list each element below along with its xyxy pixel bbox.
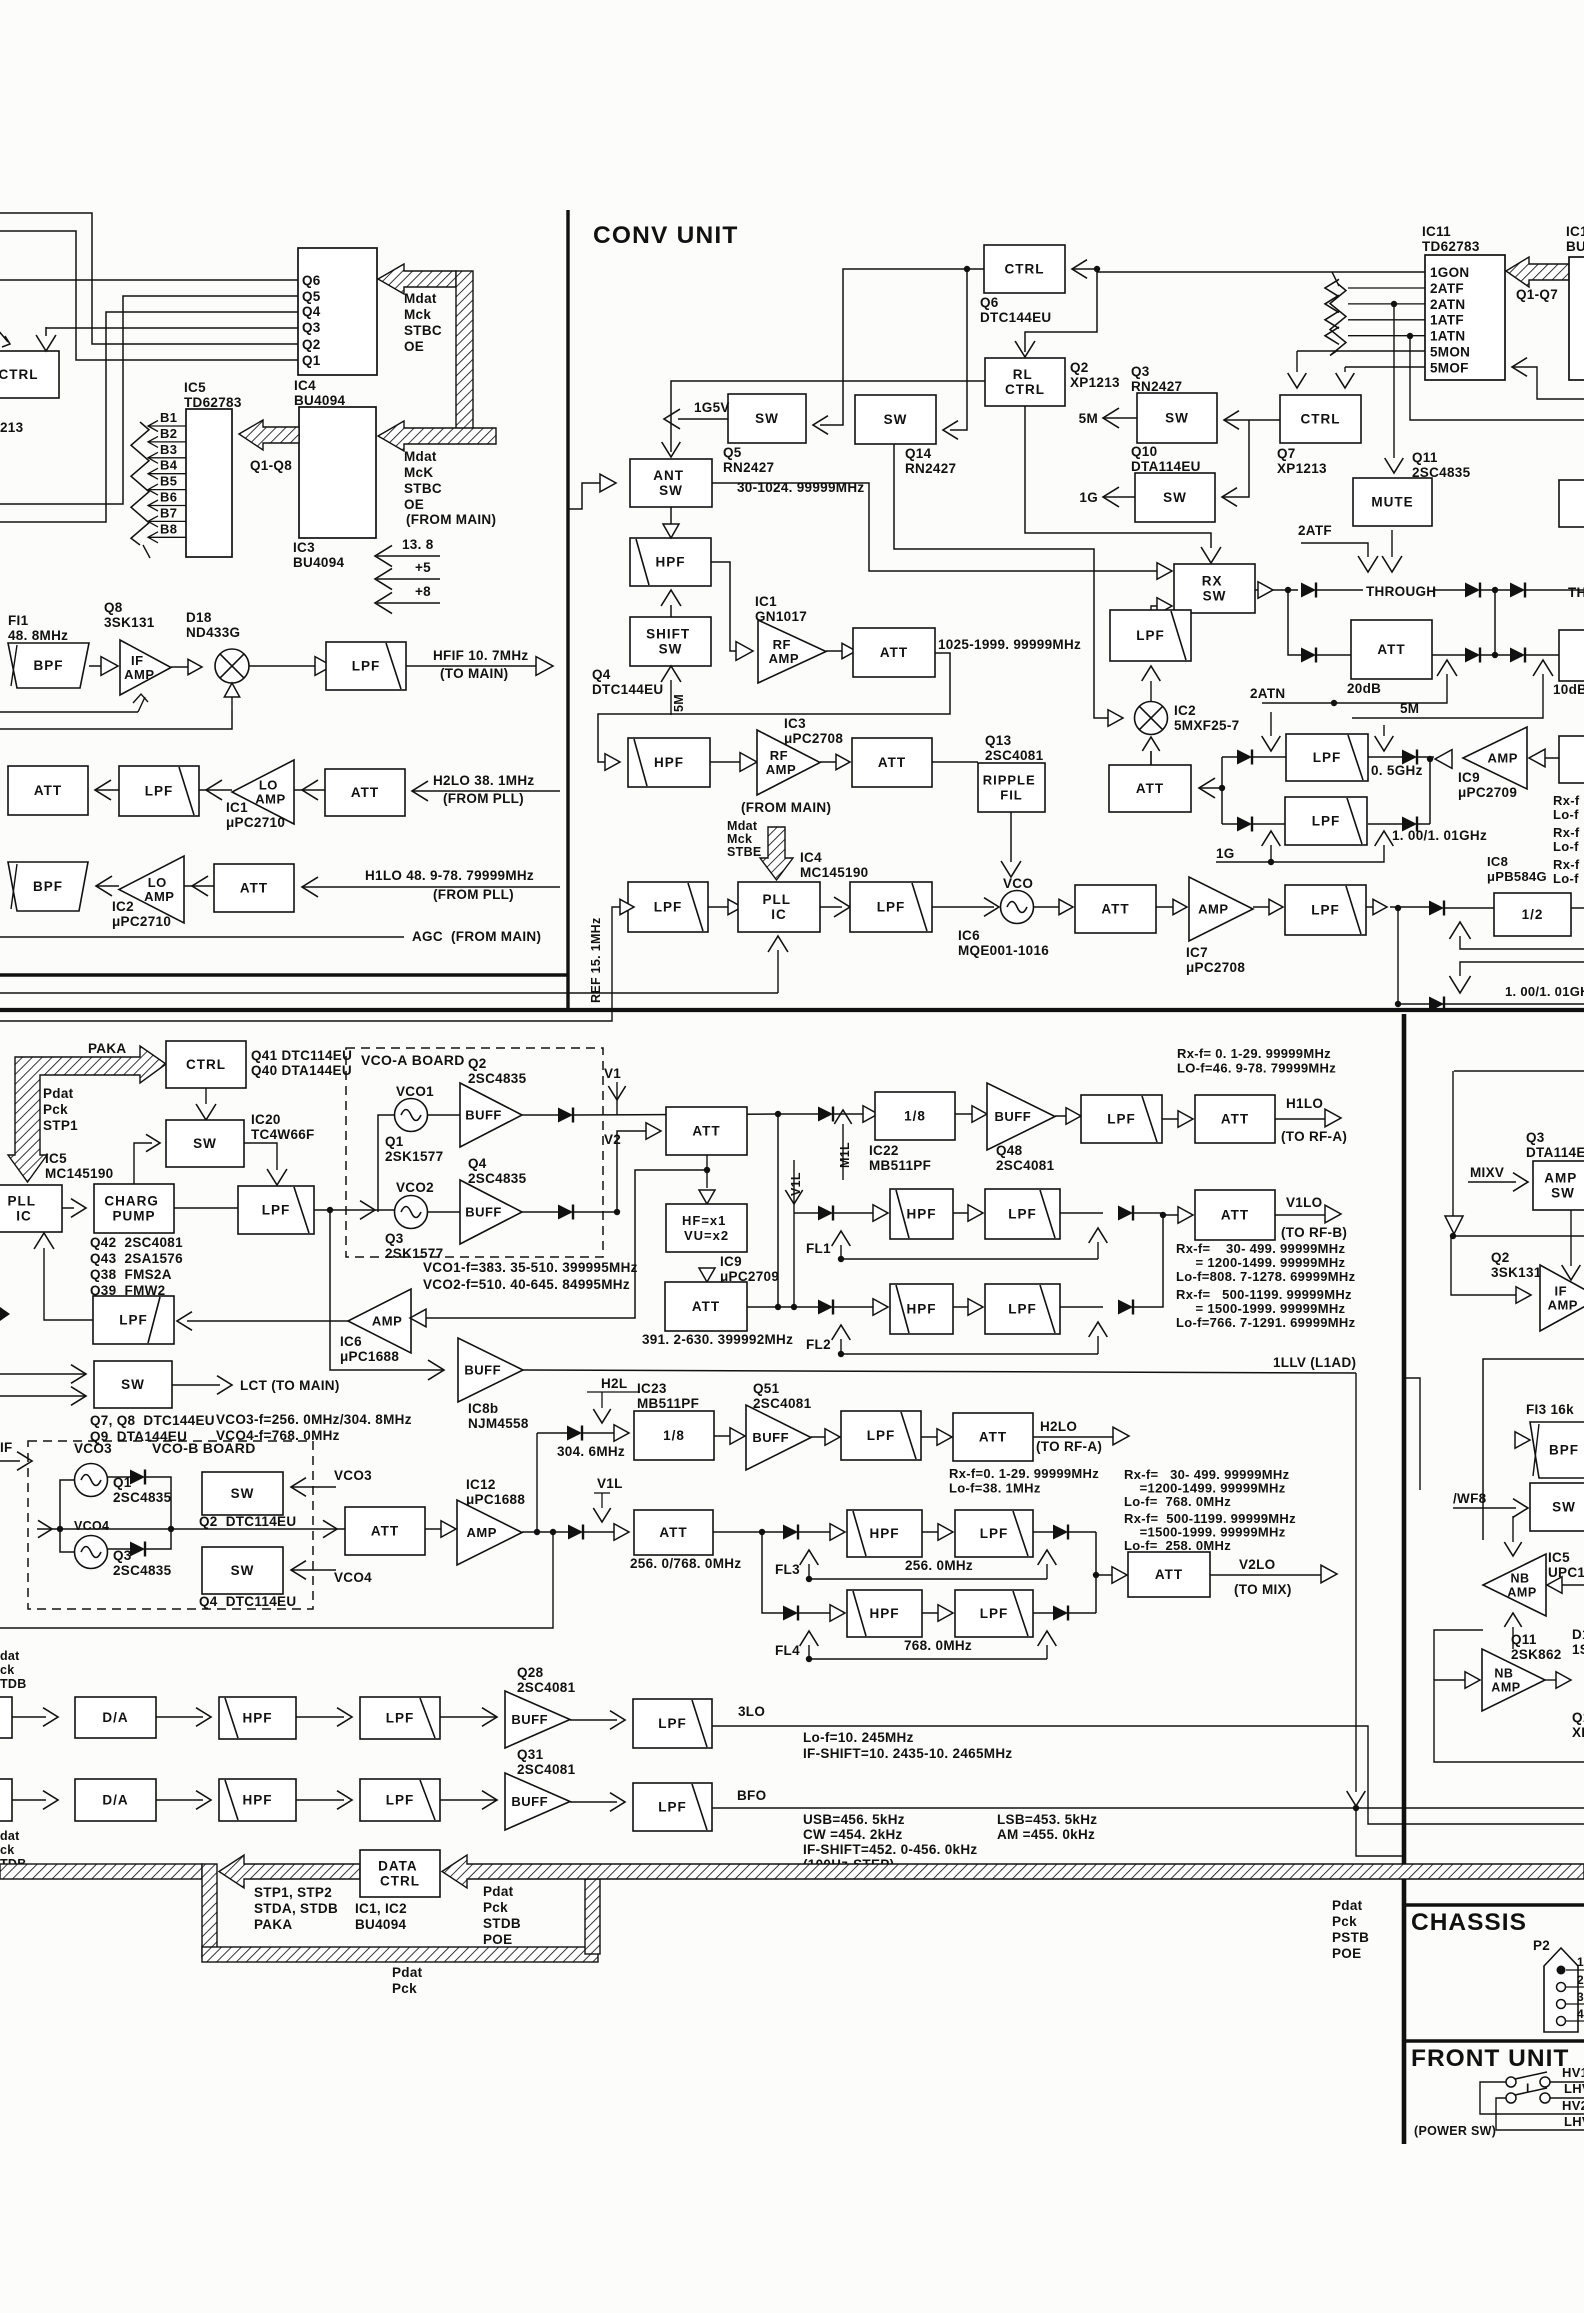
bus hatched arrow into DATA CTRL bbox=[442, 1855, 1584, 1888]
svg-text:V1L: V1L bbox=[597, 1476, 623, 1491]
filter LPF after amp bbox=[1253, 906, 1269, 908]
svg-text:IC1, IC2 BU4094: IC1, IC2 BU4094 bbox=[355, 1901, 411, 1932]
svg-text:SW: SW bbox=[1552, 1500, 1576, 1515]
attenuator ATT gig bbox=[1109, 765, 1191, 812]
svg-text:(FROM PLL): (FROM PLL) bbox=[433, 887, 514, 902]
svg-text:ATT: ATT bbox=[659, 1525, 687, 1540]
svg-text:CHASSIS: CHASSIS bbox=[1411, 1909, 1527, 1936]
wire IF AMP feedback bbox=[0, 711, 138, 713]
diode att out 1 bbox=[1432, 654, 1465, 656]
wire 1GON line bbox=[1097, 271, 1425, 273]
svg-text:B8: B8 bbox=[160, 521, 177, 536]
wire mult down bbox=[699, 1268, 715, 1282]
svg-text:VCO4: VCO4 bbox=[74, 1519, 109, 1533]
bus hatched main band left bbox=[0, 1864, 202, 1879]
wire: CONV unit left border bbox=[566, 210, 569, 1010]
svg-text:1. 00/1. 01GH: 1. 00/1. 01GH bbox=[1505, 984, 1584, 999]
wire ANT SW input bbox=[568, 483, 600, 509]
svg-text:Q1 XP: Q1 XP bbox=[1572, 1710, 1584, 1740]
wire power sw routing 2 bbox=[1496, 2098, 1584, 2130]
wire sw right to lpf bbox=[244, 1143, 277, 1170]
diode through 3 bbox=[1510, 583, 1525, 598]
svg-text:AMP: AMP bbox=[1487, 751, 1517, 766]
amp IC6 uPC1688 bbox=[348, 1289, 411, 1353]
wire 1llv line bbox=[523, 1370, 1356, 1373]
filter HPF da1 bbox=[156, 1716, 203, 1718]
svg-text:(POWER SW): (POWER SW) bbox=[1414, 2124, 1496, 2138]
wire IF AMP agc arrow bbox=[138, 697, 145, 712]
wire 13.8 supply arrow bbox=[375, 545, 392, 566]
svg-text:DATA CTRL: DATA CTRL bbox=[378, 1859, 422, 1889]
wire 304 feed vertical bbox=[536, 1433, 538, 1532]
svg-text:V2: V2 bbox=[604, 1132, 621, 1147]
svg-text:H2L: H2L bbox=[601, 1376, 627, 1391]
diode vco3 out bbox=[108, 1476, 130, 1478]
svg-text:Rx-f= 0. 1-29. 99999MHz LO-f=4: Rx-f= 0. 1-29. 99999MHz LO-f=46. 9-78. 7… bbox=[1177, 1046, 1336, 1076]
switch SW right edge top bbox=[1559, 480, 1584, 527]
svg-text:LHV: LHV bbox=[1564, 2081, 1584, 2096]
svg-text:BUFF: BUFF bbox=[465, 1205, 502, 1220]
svg-text:5M: 5M bbox=[1079, 411, 1098, 426]
diode hpf 256 in bbox=[783, 1525, 798, 1540]
svg-text:B4: B4 bbox=[160, 458, 178, 473]
svg-text:AMP: AMP bbox=[1198, 902, 1228, 917]
switch SW IC20 TC4W66F bbox=[166, 1120, 244, 1167]
svg-text:LPF: LPF bbox=[386, 1711, 415, 1726]
wire v2lo join bbox=[1095, 1532, 1097, 1613]
svg-text:FRONT UNIT: FRONT UNIT bbox=[1411, 2045, 1569, 2072]
svg-text:D/A: D/A bbox=[102, 1710, 128, 1725]
attenuator ATT 391 bbox=[665, 1282, 747, 1331]
attenuator ATT second bbox=[820, 761, 836, 763]
svg-text:SW: SW bbox=[755, 411, 779, 426]
svg-text:LPF: LPF bbox=[386, 1793, 415, 1808]
svg-text:H2LO 38. 1MHz: H2LO 38. 1MHz bbox=[433, 773, 534, 788]
svg-text:Q4 DTC114EU: Q4 DTC114EU bbox=[199, 1594, 296, 1609]
wire SW feeds from CTRL Q7 bbox=[1224, 411, 1239, 430]
svg-text:4: 4 bbox=[1577, 2007, 1584, 2021]
svg-text:SW: SW bbox=[231, 1486, 255, 1501]
svg-text:5MOF: 5MOF bbox=[1430, 360, 1469, 375]
svg-text:ATT: ATT bbox=[1136, 781, 1164, 796]
svg-text:HPF: HPF bbox=[907, 1207, 937, 1222]
diode through 2 bbox=[1465, 583, 1480, 598]
connector arrow left edge bbox=[0, 1307, 10, 1321]
svg-text:BFO: BFO bbox=[737, 1788, 766, 1803]
svg-text:B7: B7 bbox=[160, 505, 177, 520]
filter LPF da2 bbox=[296, 1799, 344, 1801]
mixer IC2 5MXF25-7 bbox=[1135, 702, 1168, 735]
svg-text:ATT: ATT bbox=[1101, 902, 1129, 917]
svg-text:VCO2: VCO2 bbox=[396, 1180, 434, 1195]
svg-text:LSB=453. 5kHz AM =455. 0kHz: LSB=453. 5kHz AM =455. 0kHz bbox=[997, 1812, 1101, 1842]
bus hatched arrow Mdat Mck STBC OE into IC4 bbox=[378, 264, 456, 294]
svg-text:FL3: FL3 bbox=[775, 1562, 800, 1577]
svg-text:(FROM MAIN): (FROM MAIN) bbox=[741, 800, 831, 815]
wire 5MOF line bbox=[1345, 366, 1425, 368]
svg-text:HV2: HV2 bbox=[1562, 2098, 1584, 2113]
attenuator ATT 1025 bbox=[826, 650, 842, 652]
svg-text:2ATF: 2ATF bbox=[1298, 523, 1332, 538]
wire BPF out bbox=[89, 665, 101, 667]
wire p2 pins bbox=[1566, 1969, 1584, 1971]
attenuator ATT 20dB bbox=[1351, 620, 1432, 679]
wire vco3 select bbox=[291, 1478, 306, 1497]
svg-text:BUFF: BUFF bbox=[752, 1430, 789, 1445]
svg-text:3LO: 3LO bbox=[738, 1704, 765, 1719]
attenuator ATT h2lo bbox=[921, 1436, 937, 1438]
svg-text:1/8: 1/8 bbox=[904, 1109, 926, 1124]
node DATA CTRL IC1 IC2 BU4094 bbox=[360, 1850, 440, 1897]
wire 2ATN to mute bbox=[1391, 301, 1397, 307]
filter LPF vco bbox=[820, 906, 842, 908]
svg-text:LPF: LPF bbox=[352, 659, 381, 674]
filter LPF h1lo out bbox=[1055, 1115, 1066, 1117]
bus hatched left riser bbox=[202, 1864, 217, 1958]
svg-text:1ATF: 1ATF bbox=[1430, 313, 1464, 328]
wire nb amp bottom arrow bbox=[1504, 1613, 1521, 1627]
attenuator ATT vco out bbox=[1034, 906, 1059, 908]
wire PLL feedback bbox=[777, 950, 779, 993]
svg-text:ATT: ATT bbox=[371, 1524, 399, 1539]
svg-text:CTRL: CTRL bbox=[1005, 262, 1045, 277]
switch POWER SW pole 2 bbox=[1506, 2093, 1516, 2103]
wire sw left to charge pump bbox=[134, 1143, 152, 1184]
svg-text:SW: SW bbox=[121, 1377, 145, 1392]
svg-text:304. 6MHz: 304. 6MHz bbox=[557, 1444, 625, 1459]
svg-text:LPF: LPF bbox=[1311, 903, 1340, 918]
diode lpf 1G out bbox=[1402, 817, 1417, 832]
svg-text:LPF: LPF bbox=[658, 1716, 687, 1731]
svg-text:Rx-f= 30- 499. 99999MHz: Rx-f= 30- 499. 99999MHz = 1200-1499. 999… bbox=[1176, 1241, 1356, 1284]
svg-text:Q1: Q1 bbox=[302, 353, 321, 368]
node CTRL control block (left, cut) bbox=[0, 351, 59, 398]
wire amp feed bbox=[1529, 749, 1545, 767]
svg-text:AGC (FROM MAIN): AGC (FROM MAIN) bbox=[412, 929, 541, 944]
svg-text:B3: B3 bbox=[160, 442, 177, 457]
buffer BUFF Q48 2SC4081 bbox=[955, 1113, 972, 1115]
wire CTRL right feed bbox=[1072, 260, 1087, 279]
svg-text:20dB: 20dB bbox=[1347, 681, 1381, 696]
wire down triangle junction bbox=[1445, 1216, 1463, 1234]
wire RL CTRL left to ANT SW bbox=[671, 381, 985, 443]
filter LPF pll return bbox=[187, 1320, 348, 1322]
svg-text:SW: SW bbox=[193, 1136, 217, 1151]
svg-text:B6: B6 bbox=[160, 490, 177, 505]
svg-text:VCO-B BOARD: VCO-B BOARD bbox=[152, 1440, 256, 1456]
svg-text:SW: SW bbox=[884, 412, 908, 427]
svg-text:LPF: LPF bbox=[1136, 628, 1165, 643]
svg-text:LPF: LPF bbox=[1107, 1112, 1136, 1127]
wire lower chain feed bbox=[598, 677, 950, 762]
wire 1llv into right unit bbox=[1406, 1378, 1420, 1490]
svg-text:B5: B5 bbox=[160, 474, 177, 489]
filter LPF 256 bbox=[922, 1531, 938, 1533]
wire power sw routing 1 bbox=[1480, 2082, 1584, 2114]
wire 1.00/1.01GHz return bbox=[1460, 962, 1584, 976]
svg-text:768. 0MHz: 768. 0MHz bbox=[904, 1638, 972, 1653]
wire mixer lo from att bbox=[1142, 737, 1159, 751]
amp IC2 uPC2710 LO AMP bbox=[96, 876, 112, 896]
filter LPF bfo bbox=[570, 1801, 617, 1803]
svg-text:10dB: 10dB bbox=[1553, 682, 1584, 697]
wire Q3 line bbox=[46, 327, 298, 329]
node source box right edge bbox=[1559, 736, 1584, 783]
svg-text:LPF: LPF bbox=[980, 1526, 1009, 1541]
svg-text:Q2: Q2 bbox=[302, 337, 321, 352]
svg-text:2: 2 bbox=[1577, 1973, 1584, 1987]
filter LPF 3lo bbox=[570, 1719, 617, 1721]
wire LHV1 line bbox=[1550, 2097, 1584, 2099]
node RL CTRL Q2 XP1213 bbox=[985, 358, 1065, 406]
svg-text:HPF: HPF bbox=[654, 755, 684, 770]
vco board B dashed box bbox=[28, 1441, 313, 1609]
svg-text:BPF: BPF bbox=[33, 879, 63, 894]
wire: main horizontal section divider bbox=[0, 1008, 1584, 1012]
svg-text:VCO: VCO bbox=[1003, 876, 1033, 891]
wire +5 supply arrow bbox=[375, 568, 392, 589]
svg-text:CONV UNIT: CONV UNIT bbox=[593, 222, 739, 249]
amp IC1 uPC2710 LO AMP bbox=[206, 780, 222, 800]
wire 5M out bbox=[1103, 408, 1119, 428]
svg-text:FL2: FL2 bbox=[806, 1337, 831, 1352]
svg-text:H1LO: H1LO bbox=[1286, 1096, 1323, 1111]
filter HPF v1lo b bbox=[890, 1284, 953, 1334]
svg-text:RF AMP: RF AMP bbox=[766, 748, 796, 777]
wire vco4 select bbox=[291, 1561, 306, 1580]
wire lpf return to pll ic bbox=[44, 1248, 93, 1320]
diode lpf 0.5G out bbox=[1402, 750, 1417, 765]
wire 2ATN arrow down lpf bbox=[1270, 712, 1272, 736]
wire mixer feedback bbox=[0, 710, 232, 729]
wire 1/2 feedback up arrow bbox=[1449, 922, 1470, 939]
svg-text:5M: 5M bbox=[672, 694, 686, 712]
wire att from lpf pair bbox=[1199, 778, 1215, 798]
svg-text:NB AMP: NB AMP bbox=[1491, 1667, 1520, 1695]
switch SW Q14 RN2427 bbox=[855, 395, 936, 444]
svg-text:(TO RF-A): (TO RF-A) bbox=[1036, 1439, 1102, 1454]
wire Q2 line bbox=[0, 213, 298, 344]
svg-text:IF: IF bbox=[0, 1440, 13, 1455]
svg-text:LPF: LPF bbox=[877, 900, 906, 915]
svg-text:1. 00/1. 01GHz: 1. 00/1. 01GHz bbox=[1392, 828, 1487, 843]
svg-text:LPF: LPF bbox=[119, 1313, 148, 1328]
svg-text:RX SW: RX SW bbox=[1202, 574, 1228, 604]
diode att in bbox=[1301, 648, 1316, 663]
diode 1/8 in bbox=[777, 1114, 779, 1307]
wire 5MOF feed from right bbox=[1512, 358, 1527, 377]
bus hatched bottom band bbox=[202, 1947, 598, 1962]
diode lpf 0.5G in bbox=[1222, 756, 1237, 758]
svg-text:FI3 16k: FI3 16k bbox=[1526, 1402, 1574, 1417]
svg-text:LCT (TO MAIN): LCT (TO MAIN) bbox=[240, 1378, 340, 1393]
attenuator ATT vco-b bbox=[323, 1520, 337, 1537]
diode att 256 in bbox=[568, 1525, 583, 1540]
IC IC5 TD62783 driver bbox=[186, 409, 232, 557]
wire join to ATT bbox=[617, 1131, 646, 1212]
wire 1llv vertical down bbox=[1355, 1373, 1357, 1792]
svg-text:FL1: FL1 bbox=[806, 1241, 831, 1256]
svg-text:HF=x1 VU=x2: HF=x1 VU=x2 bbox=[682, 1213, 731, 1243]
svg-text:BPF: BPF bbox=[1549, 1443, 1579, 1458]
svg-text:VCO1: VCO1 bbox=[396, 1084, 434, 1099]
svg-text:Q5: Q5 bbox=[302, 289, 321, 304]
svg-text:H1LO 48. 9-78. 79999MHz: H1LO 48. 9-78. 79999MHz bbox=[365, 868, 534, 883]
svg-text:1G: 1G bbox=[1079, 490, 1098, 505]
wire through-att link bbox=[1494, 590, 1496, 655]
svg-text:1G5V: 1G5V bbox=[694, 400, 730, 415]
divider 1/8 IC22 MB511PF bbox=[875, 1092, 955, 1140]
wire +8 supply arrow bbox=[375, 592, 392, 613]
filter LPF da1 bbox=[296, 1716, 344, 1718]
svg-text:ATT: ATT bbox=[240, 881, 268, 896]
svg-text:V2LO: V2LO bbox=[1239, 1557, 1275, 1572]
diode hpf1 in bbox=[794, 1212, 818, 1214]
svg-text:HPF: HPF bbox=[907, 1302, 937, 1317]
wire Q5 line bbox=[0, 296, 298, 504]
attenuator ATT v2lo bbox=[1096, 1574, 1112, 1576]
bus hatched arrow Q1-Q7 bbox=[1506, 257, 1569, 287]
IC IC4 BU4094 shift register bbox=[298, 248, 377, 375]
wire mixer in bbox=[1108, 710, 1123, 727]
svg-text:ATT: ATT bbox=[880, 645, 908, 660]
svg-text:LHV: LHV bbox=[1564, 2114, 1584, 2129]
svg-text:ATT: ATT bbox=[1155, 1567, 1183, 1582]
IC PLL IC conv bbox=[708, 906, 728, 908]
filter LPF v1lo b bbox=[953, 1306, 968, 1308]
attenuator ATT h2lo out bbox=[8, 766, 88, 815]
svg-text:13. 8: 13. 8 bbox=[402, 537, 434, 552]
filter LPF conv low bbox=[1110, 610, 1191, 661]
filter LPF IF out bbox=[249, 665, 315, 667]
wire HV1 line bbox=[1550, 2081, 1584, 2083]
attenuator ATT h1lo bbox=[192, 876, 208, 896]
node CTRL Q41 Q40 bbox=[166, 1041, 246, 1088]
svg-text:256. 0MHz: 256. 0MHz bbox=[905, 1558, 973, 1573]
filter LPF 0.5GHz bbox=[1286, 734, 1368, 781]
wire nb amp feed bbox=[1547, 1577, 1562, 1594]
svg-text:LPF: LPF bbox=[1008, 1302, 1037, 1317]
switch SW LCT Q7 Q8 Q9 bbox=[94, 1361, 172, 1408]
switch RX SW bbox=[1157, 563, 1172, 580]
filter HPF ant bbox=[630, 538, 711, 586]
svg-text:LPF: LPF bbox=[658, 1800, 687, 1815]
wire ATT down to lower chain bbox=[935, 653, 950, 677]
svg-text:PAKA: PAKA bbox=[88, 1041, 126, 1056]
svg-text:TH: TH bbox=[1568, 585, 1584, 600]
svg-text:SW: SW bbox=[1163, 490, 1187, 505]
svg-text:Q2 DTC114EU: Q2 DTC114EU bbox=[199, 1514, 296, 1529]
diode lpf 768 out bbox=[1033, 1612, 1053, 1614]
svg-text:VCO4: VCO4 bbox=[334, 1570, 372, 1585]
filter LPF 768 bbox=[922, 1612, 938, 1614]
svg-text:1G: 1G bbox=[1216, 846, 1235, 861]
wire: RF unit bottom border bbox=[0, 973, 568, 976]
wire vco34 trunk bbox=[60, 1480, 74, 1529]
wire V2L trunk bbox=[0, 1532, 553, 1628]
svg-text:1ATN: 1ATN bbox=[1430, 329, 1465, 344]
wire ripple to VCO bbox=[1010, 812, 1012, 862]
wire lpf to mixer bbox=[1142, 666, 1161, 681]
svg-text:1: 1 bbox=[1577, 1955, 1584, 1969]
bus hatched arrow Q1-Q8 from IC3 to IC5 bbox=[239, 420, 299, 450]
IC PLL IC pll unit bbox=[0, 1185, 62, 1232]
svg-text:1025-1999. 99999MHz: 1025-1999. 99999MHz bbox=[938, 637, 1081, 652]
svg-text:LPF: LPF bbox=[654, 900, 683, 915]
wire 5M into SHIFT SW bbox=[670, 680, 672, 715]
wire mixer LO input bbox=[231, 683, 233, 710]
svg-text:ATT: ATT bbox=[34, 783, 62, 798]
wire: CHASSIS top border bbox=[1406, 1903, 1584, 1907]
switch SW vco3 Q2 DTC114EU bbox=[202, 1472, 283, 1515]
attenuator ATT v1lo bbox=[1163, 1214, 1178, 1216]
svg-text:HPF: HPF bbox=[870, 1526, 900, 1541]
wire CTRL left to SW bbox=[820, 269, 984, 425]
attenuator ATT 256/768 bbox=[634, 1510, 713, 1555]
switch SW vco4 Q4 DTC114EU bbox=[202, 1547, 283, 1594]
svg-text:2ATN: 2ATN bbox=[1430, 297, 1465, 312]
wire LCT output bbox=[172, 1384, 220, 1386]
svg-text:(TO RF-A): (TO RF-A) bbox=[1281, 1129, 1347, 1144]
wire HFIF output bbox=[406, 665, 536, 667]
svg-text:LPF: LPF bbox=[867, 1428, 896, 1443]
attenuator ATT h1lo out bbox=[1162, 1118, 1178, 1120]
svg-text:(TO MIX): (TO MIX) bbox=[1234, 1582, 1292, 1597]
wire 5M select bbox=[1533, 660, 1553, 676]
diode on return line bbox=[1398, 908, 1584, 1004]
diode att out 2 bbox=[1510, 648, 1525, 663]
svg-text:B2: B2 bbox=[160, 426, 177, 441]
node CHARG PUMP Q42 Q43 Q38 Q39 bbox=[62, 1207, 74, 1209]
diode hpf2 in bbox=[818, 1300, 833, 1315]
wire through to att branch bbox=[1288, 590, 1301, 655]
svg-text:Q1-Q7: Q1-Q7 bbox=[1516, 287, 1558, 302]
filter LPF v1lo a bbox=[953, 1212, 968, 1214]
filter HPF da2 bbox=[156, 1799, 203, 1801]
diode vco1 out bbox=[522, 1114, 558, 1116]
wire ANT SW to HPF bbox=[670, 507, 672, 524]
wire att 391 out bbox=[747, 1306, 818, 1308]
svg-text:BUFF: BUFF bbox=[464, 1363, 501, 1378]
switch SW Q5 RN2427 bbox=[728, 394, 806, 443]
svg-text:HPF: HPF bbox=[870, 1606, 900, 1621]
wire ref input bbox=[0, 907, 620, 1021]
svg-text:BPF: BPF bbox=[34, 658, 64, 673]
svg-text:ATT: ATT bbox=[878, 755, 906, 770]
svg-text:ATT: ATT bbox=[692, 1124, 720, 1139]
wire 2ATN select bbox=[1437, 660, 1457, 676]
svg-text:HFIF 10. 7MHz: HFIF 10. 7MHz bbox=[433, 648, 528, 663]
svg-text:5M: 5M bbox=[1400, 701, 1419, 716]
diode vco2 out bbox=[522, 1211, 558, 1213]
node right box outline bbox=[1483, 1359, 1584, 1540]
filter HPF 256 bbox=[847, 1510, 922, 1557]
wire sw lct inputs bbox=[71, 1365, 86, 1384]
wire vco1 link bbox=[378, 1115, 395, 1212]
wire lpf pair join bbox=[1429, 759, 1431, 824]
svg-text:LPF: LPF bbox=[262, 1203, 291, 1218]
wire H1LO output bbox=[1275, 1118, 1325, 1120]
svg-text:(FROM MAIN): (FROM MAIN) bbox=[406, 512, 496, 527]
wire nb amp top arrow bbox=[1512, 1516, 1514, 1542]
wire V1LO output bbox=[1275, 1214, 1325, 1216]
wire amp out junctions bbox=[522, 1531, 568, 1533]
wire: FRONT UNIT top border bbox=[1406, 2039, 1584, 2043]
diode to 1/2 divider bbox=[1429, 901, 1444, 916]
bus hatched arrow Mdat McK STBC OE into IC3 bbox=[378, 421, 496, 451]
wire ctrl to sw bbox=[205, 1088, 207, 1104]
wire vcob input bbox=[0, 1460, 20, 1462]
